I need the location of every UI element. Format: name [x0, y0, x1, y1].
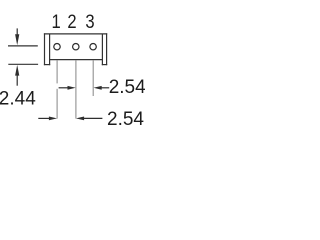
svg-text:2: 2 [67, 11, 76, 32]
dimension 2.44 down arrow [16, 28, 18, 36]
dim line pin2-pin3 right segment with left arrow [100, 87, 110, 89]
svg-text:2.54: 2.54 [109, 77, 145, 98]
dim line pin1-pin2 left segment with right arrow [38, 117, 51, 119]
dimension 2.44 up arrow [16, 74, 18, 86]
pin 1 circle [54, 44, 60, 50]
body left cap inner edge [48, 34, 50, 65]
extension line at body bottom level [8, 63, 38, 65]
dim line pin1-pin2 right segment with left arrow [82, 117, 102, 119]
extension line at pin row level [8, 45, 38, 47]
pin 1 center line lower segment [56, 89, 58, 119]
svg-text:1: 1 [51, 11, 60, 32]
svg-text:2.54: 2.54 [107, 109, 144, 130]
pin 2 center line [75, 60, 77, 118]
svg-text:3: 3 [85, 11, 94, 32]
body top edge [44, 33, 107, 35]
body left cap bottom [44, 63, 50, 65]
body right cap bottom [102, 63, 107, 65]
pin 3 circle [90, 44, 96, 50]
dim line pin2-pin3 left segment with right arrow [59, 87, 70, 89]
pin 2 circle [73, 44, 79, 50]
body right cap outer edge [105, 33, 107, 65]
body bottom edge [50, 58, 103, 60]
pin 1 center line upper segment [56, 60, 58, 83]
body right cap inner edge [101, 34, 103, 65]
pin 3 center line [92, 60, 94, 96]
svg-text:2.44: 2.44 [0, 88, 36, 109]
body left cap outer edge [43, 33, 45, 65]
